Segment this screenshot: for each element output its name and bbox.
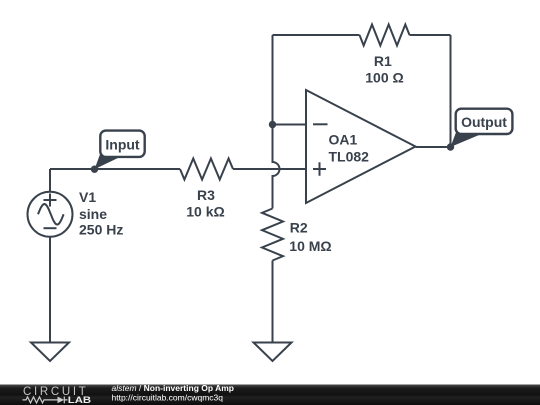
V1 plus sign — [44, 194, 57, 207]
ground (under R2) — [254, 343, 292, 362]
wire: input node horizontal (V1 corner to R3) — [50, 168, 180, 170]
V1 minus sign — [44, 227, 57, 229]
wire: V1 top lead — [49, 169, 51, 192]
svg-text:LAB: LAB — [68, 395, 92, 405]
svg-text:alstem / Non-inverting Op Amp: alstem / Non-inverting Op Amp — [112, 383, 235, 393]
op-amp OA1 (triangle) — [306, 90, 416, 203]
svg-text:sine: sine — [79, 206, 107, 222]
Output callout box — [456, 109, 513, 134]
Output callout tail — [451, 131, 483, 147]
junction dot: Output node — [447, 143, 454, 150]
OA1 inverting input minus sign — [313, 123, 328, 125]
svg-text:Output: Output — [461, 114, 507, 130]
wire: - input from junction to op-amp — [273, 124, 307, 126]
voltage source V1 (circle) — [28, 192, 73, 237]
Input callout box — [100, 131, 144, 157]
svg-text:R3: R3 — [197, 187, 215, 203]
wire: op-amp output to node — [416, 146, 451, 148]
footer bar — [0, 385, 540, 405]
svg-text:http://circuitlab.com/cwqmc3q: http://circuitlab.com/cwqmc3q — [112, 393, 224, 403]
Input callout tail — [95, 153, 122, 169]
svg-text:V1: V1 — [79, 189, 96, 205]
OA1 non-inverting input plus sign — [313, 162, 326, 176]
wire: feedback vertical right down to output node — [450, 35, 452, 147]
svg-text:OA1: OA1 — [329, 132, 358, 148]
wire: V1 bottom lead to ground — [49, 237, 51, 342]
CircuitLab logo: resistor squiggle and diode — [23, 397, 68, 404]
svg-text:R1: R1 — [374, 53, 392, 69]
wire: top feedback horizontal left — [273, 34, 360, 36]
svg-text:10 kΩ: 10 kΩ — [186, 204, 224, 220]
svg-text:R2: R2 — [290, 219, 308, 235]
V1 sine glyph — [38, 204, 64, 225]
svg-text:100 Ω: 100 Ω — [365, 70, 403, 86]
svg-text:TL082: TL082 — [329, 148, 370, 164]
ground (under V1) — [31, 343, 69, 362]
wire: feedback vertical left (top node to - input) — [272, 35, 274, 125]
resistor R1 — [360, 25, 410, 46]
wire: R2 bottom to ground — [272, 261, 274, 343]
svg-text:250 Hz: 250 Hz — [79, 221, 123, 237]
wire: junction down to hop, hop over + wire, down to R2 — [273, 125, 280, 209]
resistor R2 — [262, 209, 283, 261]
resistor R3 — [180, 159, 233, 180]
wire: top feedback horizontal right — [410, 34, 451, 36]
svg-text:Input: Input — [105, 136, 140, 152]
svg-text:10 MΩ: 10 MΩ — [289, 238, 331, 254]
wire: R3 to op-amp + input — [233, 168, 306, 170]
junction dot: feedback / - input — [269, 121, 276, 128]
junction dot: Input node — [91, 166, 98, 173]
